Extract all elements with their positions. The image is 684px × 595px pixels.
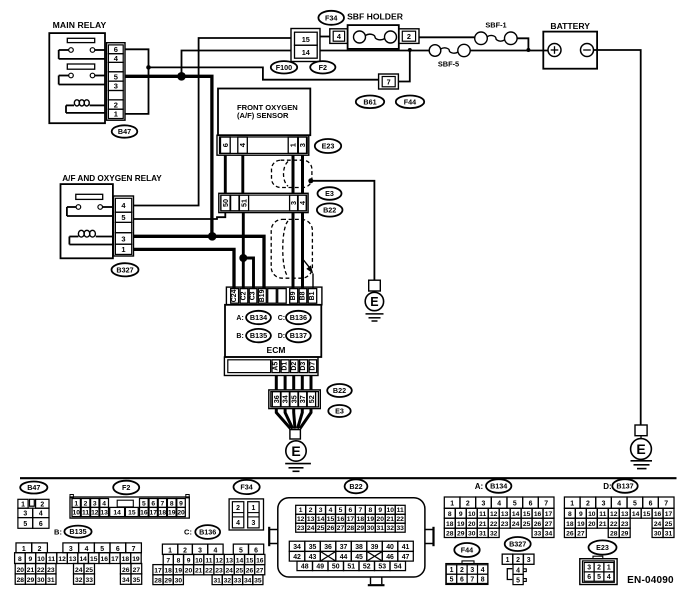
separator line	[20, 477, 677, 479]
svg-text:21: 21	[195, 568, 203, 575]
svg-text:8: 8	[177, 557, 181, 564]
svg-text:12: 12	[215, 557, 223, 564]
ECM bottom pin row	[224, 357, 318, 376]
svg-text:34: 34	[293, 544, 301, 551]
svg-text:4: 4	[298, 201, 307, 205]
connector B327 callout bottom	[505, 537, 531, 551]
svg-text:4: 4	[213, 547, 217, 554]
connector B137 pinout grid	[564, 497, 674, 538]
svg-text:2: 2	[40, 501, 44, 508]
svg-text:20: 20	[177, 510, 185, 517]
svg-text:B1: B1	[309, 291, 316, 300]
svg-text:B135: B135	[69, 527, 86, 536]
svg-text:7: 7	[387, 77, 391, 86]
svg-text:25: 25	[86, 567, 94, 574]
svg-text:F34: F34	[240, 483, 252, 492]
svg-text:44: 44	[340, 554, 348, 561]
svg-text:6: 6	[349, 507, 353, 514]
connector F2 callout bottom	[113, 481, 139, 495]
connector B22 callout bottom	[345, 479, 368, 493]
svg-text:5: 5	[513, 501, 517, 508]
svg-text:22: 22	[396, 516, 404, 523]
svg-text:31: 31	[377, 525, 385, 532]
svg-text:42: 42	[293, 554, 301, 561]
ECM label D: B137	[278, 333, 285, 340]
svg-text:C2: C2	[240, 291, 247, 300]
main relay box	[49, 33, 105, 123]
svg-text:2: 2	[516, 557, 520, 564]
connector B135 pinout grid	[15, 543, 142, 584]
svg-text:1: 1	[21, 501, 25, 508]
svg-text:10: 10	[386, 507, 394, 514]
svg-text:7: 7	[166, 557, 170, 564]
svg-text:E: E	[370, 295, 378, 309]
battery plus terminal	[548, 44, 561, 57]
svg-text:9: 9	[187, 557, 191, 564]
svg-text:10: 10	[195, 557, 203, 564]
connector B61 callout	[356, 96, 384, 109]
svg-text:15: 15	[643, 511, 651, 518]
svg-text:16: 16	[140, 510, 148, 517]
svg-text:34: 34	[281, 395, 290, 403]
svg-text:3: 3	[587, 565, 591, 572]
svg-text:1: 1	[114, 110, 118, 119]
svg-text:17: 17	[545, 511, 553, 518]
ground E battery symbol	[631, 425, 653, 469]
svg-text:B135: B135	[250, 331, 267, 340]
svg-text:6: 6	[460, 577, 464, 584]
svg-text:6: 6	[116, 546, 120, 553]
svg-text:35: 35	[309, 544, 317, 551]
svg-text:BATTERY: BATTERY	[550, 21, 590, 31]
svg-text:24: 24	[225, 568, 233, 575]
svg-text:2: 2	[38, 546, 42, 553]
svg-text:17: 17	[347, 516, 355, 523]
svg-text:2: 2	[84, 500, 88, 507]
svg-text:C24: C24	[231, 289, 238, 302]
svg-text:20: 20	[377, 516, 385, 523]
svg-text:45: 45	[355, 554, 363, 561]
svg-text:25: 25	[317, 525, 325, 532]
svg-text:23: 23	[621, 521, 629, 528]
svg-text:16: 16	[534, 511, 542, 518]
connector F100 callout	[271, 61, 297, 73]
svg-text:8: 8	[170, 500, 174, 507]
A/F relay coil	[69, 230, 113, 244]
svg-text:3: 3	[470, 567, 474, 574]
svg-text:7: 7	[132, 546, 136, 553]
connector E23 callout bottom	[589, 540, 617, 554]
wire pin3 to ECM B9	[292, 213, 295, 289]
svg-text:6: 6	[587, 574, 591, 581]
svg-text:A:: A:	[475, 482, 483, 491]
svg-text:13: 13	[226, 557, 234, 564]
svg-text:B22: B22	[323, 206, 336, 215]
SBF holder pin 4	[330, 29, 348, 44]
svg-text:4: 4	[481, 567, 485, 574]
svg-text:35: 35	[133, 577, 141, 584]
svg-text:27: 27	[256, 568, 264, 575]
svg-text:SBF-5: SBF-5	[438, 59, 459, 68]
svg-text:34: 34	[122, 577, 130, 584]
svg-text:6: 6	[151, 500, 155, 507]
svg-text:53: 53	[378, 564, 386, 571]
svg-text:16: 16	[654, 511, 662, 518]
connector B327 pinout grid	[502, 554, 534, 585]
svg-text:8: 8	[448, 511, 452, 518]
svg-text:B22: B22	[333, 386, 346, 395]
wire pin4 to ECM B8	[301, 213, 304, 289]
svg-text:12: 12	[297, 516, 305, 523]
svg-text:B:: B:	[54, 528, 62, 537]
svg-text:15: 15	[90, 556, 98, 563]
svg-text:B19: B19	[259, 289, 266, 302]
svg-text:D3: D3	[300, 362, 307, 371]
svg-text:2: 2	[586, 501, 590, 508]
svg-text:2: 2	[114, 100, 118, 109]
svg-text:E: E	[636, 441, 645, 457]
svg-text:8: 8	[481, 577, 485, 584]
svg-text:31: 31	[213, 578, 221, 585]
svg-text:21: 21	[479, 521, 487, 528]
svg-text:6: 6	[649, 501, 653, 508]
svg-text:A/F AND OXYGEN RELAY: A/F AND OXYGEN RELAY	[62, 174, 162, 183]
svg-text:D:: D:	[603, 482, 611, 491]
svg-text:35: 35	[289, 395, 298, 403]
connector B47 callout	[112, 125, 138, 137]
svg-text:3: 3	[23, 511, 27, 518]
fuse SBF-5	[429, 44, 470, 68]
svg-text:ECM: ECM	[267, 345, 286, 355]
wire node A right and down thick	[182, 76, 212, 236]
svg-text:1: 1	[607, 565, 611, 572]
svg-text:29: 29	[621, 531, 629, 538]
connector row E3-B22 pins 50 51 3 4	[219, 193, 308, 212]
svg-text:5: 5	[121, 213, 125, 222]
svg-text:19: 19	[132, 556, 140, 563]
svg-text:E: E	[291, 443, 300, 459]
connector B134 pinout grid	[444, 497, 554, 538]
svg-text:26: 26	[122, 567, 130, 574]
main relay contact bar 1	[67, 38, 94, 42]
connector F44 pinout grid	[446, 561, 488, 584]
svg-text:17: 17	[149, 510, 157, 517]
svg-text:3: 3	[198, 547, 202, 554]
svg-text:36: 36	[272, 395, 281, 403]
svg-text:B9: B9	[290, 291, 297, 300]
svg-text:15: 15	[246, 557, 254, 564]
svg-text:25: 25	[665, 521, 673, 528]
svg-text:20: 20	[588, 521, 596, 528]
svg-text:5: 5	[23, 521, 27, 528]
ground funnel wires	[276, 409, 311, 429]
wire sensor pin4 to pin51	[241, 155, 244, 193]
connector F34 callout bottom	[234, 480, 260, 494]
svg-text:38: 38	[355, 544, 363, 551]
svg-text:33: 33	[86, 577, 94, 584]
main relay connector B47 pin strip	[107, 43, 126, 121]
svg-text:B137: B137	[290, 331, 307, 340]
ground E left symbol	[285, 430, 311, 472]
svg-text:25: 25	[523, 521, 531, 528]
wire pin7 up to SBF-5 line	[398, 50, 409, 82]
svg-text:14: 14	[79, 556, 87, 563]
front oxygen sensor label	[237, 103, 298, 120]
main relay coil	[66, 100, 105, 113]
svg-text:15: 15	[327, 516, 335, 523]
svg-text:51: 51	[347, 564, 355, 571]
connector B22 callout	[317, 203, 343, 216]
svg-text:5: 5	[114, 72, 118, 81]
svg-text:18: 18	[164, 568, 172, 575]
svg-text:6: 6	[529, 501, 533, 508]
svg-text:11: 11	[599, 511, 606, 518]
svg-text:30: 30	[468, 531, 476, 538]
svg-text:33: 33	[396, 525, 404, 532]
shield upper dashed	[272, 160, 312, 187]
svg-text:37: 37	[340, 544, 348, 551]
svg-text:31: 31	[665, 531, 673, 538]
connector F34 pinout grid	[229, 499, 263, 530]
svg-text:7: 7	[470, 577, 474, 584]
svg-text:4: 4	[236, 520, 240, 527]
svg-text:10: 10	[37, 556, 45, 563]
svg-text:34: 34	[244, 578, 252, 585]
svg-text:11: 11	[397, 507, 404, 514]
svg-text:28: 28	[154, 578, 162, 585]
svg-text:28: 28	[610, 531, 618, 538]
svg-text:29: 29	[357, 525, 365, 532]
connector F2 callout	[310, 61, 335, 73]
svg-text:4: 4	[102, 500, 106, 507]
svg-text:18: 18	[357, 516, 365, 523]
svg-text:16: 16	[101, 556, 109, 563]
svg-text:C3: C3	[250, 291, 257, 300]
A/F relay connector B327 pin strip	[114, 196, 134, 256]
svg-text:33: 33	[534, 531, 542, 538]
svg-text:25: 25	[236, 568, 244, 575]
svg-text:13: 13	[307, 516, 315, 523]
svg-text:1: 1	[450, 567, 454, 574]
connector F44 callout	[396, 96, 424, 109]
svg-text:19: 19	[577, 521, 585, 528]
svg-text:21: 21	[599, 521, 607, 528]
svg-text:B134: B134	[250, 313, 267, 322]
svg-text:8: 8	[368, 507, 372, 514]
svg-text:52: 52	[363, 564, 371, 571]
connector B22 callout lower	[327, 384, 352, 397]
connector E3 callout	[318, 187, 342, 200]
svg-text:33: 33	[234, 578, 242, 585]
svg-text:5: 5	[597, 574, 601, 581]
svg-text:1: 1	[288, 143, 297, 147]
svg-text:11: 11	[48, 556, 55, 563]
svg-text:19: 19	[367, 516, 375, 523]
wire F2 pin14 to battery plus	[320, 50, 429, 52]
svg-text:22: 22	[490, 521, 498, 528]
svg-text:10: 10	[588, 511, 596, 518]
svg-text:5: 5	[339, 507, 343, 514]
fuse SBF-1	[475, 20, 517, 44]
ECM label B: B135	[236, 333, 243, 340]
svg-text:20: 20	[185, 568, 193, 575]
svg-text:B327: B327	[509, 540, 526, 549]
svg-text:21: 21	[27, 567, 35, 574]
svg-text:14: 14	[317, 516, 325, 523]
svg-text:3: 3	[482, 501, 486, 508]
node junction on pin6-pin1 wire	[146, 65, 151, 70]
svg-text:8: 8	[568, 511, 572, 518]
connector pin 7 (B61 to F44)	[379, 74, 399, 89]
svg-text:24: 24	[307, 525, 315, 532]
svg-text:4: 4	[85, 546, 89, 553]
svg-text:10: 10	[468, 511, 476, 518]
svg-text:30: 30	[367, 525, 375, 532]
svg-text:11: 11	[479, 511, 486, 518]
svg-text:B:: B:	[236, 333, 243, 340]
main relay switch 1	[59, 48, 105, 59]
svg-text:32: 32	[386, 525, 394, 532]
svg-text:36: 36	[324, 544, 332, 551]
svg-text:6: 6	[254, 547, 258, 554]
svg-text:B47: B47	[118, 127, 131, 136]
connector B327 callout	[112, 263, 139, 276]
svg-text:43: 43	[309, 554, 317, 561]
svg-text:50: 50	[332, 564, 340, 571]
svg-text:15: 15	[302, 35, 310, 44]
svg-text:26: 26	[246, 568, 254, 575]
svg-text:2: 2	[236, 505, 240, 512]
connector B22 pinout housing	[269, 498, 433, 586]
svg-text:9: 9	[459, 511, 463, 518]
svg-text:15: 15	[523, 511, 531, 518]
svg-text:32: 32	[224, 578, 232, 585]
node junction sensor signal split	[239, 254, 247, 262]
svg-text:27: 27	[545, 521, 553, 528]
svg-text:4: 4	[607, 574, 611, 581]
ECM top pin row	[226, 287, 322, 305]
svg-text:19: 19	[168, 510, 176, 517]
svg-text:22: 22	[610, 521, 618, 528]
svg-text:F44: F44	[461, 546, 473, 555]
svg-text:B327: B327	[116, 265, 133, 274]
svg-text:SBF HOLDER: SBF HOLDER	[347, 11, 404, 21]
svg-text:MAIN RELAY: MAIN RELAY	[53, 20, 107, 30]
sensor connector E23 pin row	[217, 135, 309, 155]
svg-text:13: 13	[69, 556, 77, 563]
svg-text:23: 23	[297, 525, 305, 532]
svg-text:E23: E23	[322, 142, 335, 151]
connector B134 callout	[486, 479, 511, 493]
svg-text:D2: D2	[291, 362, 298, 371]
connector E23 pinout grid	[580, 556, 617, 584]
svg-text:35: 35	[254, 578, 262, 585]
node junction battery line	[526, 48, 530, 52]
svg-text:18: 18	[446, 521, 454, 528]
svg-text:E3: E3	[335, 407, 344, 416]
svg-text:1: 1	[121, 245, 125, 254]
ground connector row 36 34 35 37 52	[269, 390, 321, 409]
svg-text:F2: F2	[122, 483, 130, 492]
battery box	[543, 32, 597, 69]
wire sensor pin1 signal	[292, 155, 295, 193]
svg-text:F34: F34	[325, 13, 337, 22]
connector E23 callout	[315, 139, 341, 153]
svg-text:26: 26	[566, 531, 574, 538]
svg-text:30: 30	[37, 577, 45, 584]
SBF main fuse	[348, 25, 399, 49]
wire A/F relay pin3 thick to ECM B19	[134, 236, 265, 288]
A/F relay contact bar	[76, 194, 103, 199]
connector F2 pinout grid	[70, 495, 189, 519]
svg-text:29: 29	[457, 531, 465, 538]
svg-text:14: 14	[632, 511, 640, 518]
wire sensor pin6 to pin50	[224, 155, 227, 193]
wire sensor pin3 signal	[301, 155, 304, 193]
ECM label C: B136	[278, 315, 285, 322]
node big junction A	[177, 72, 186, 81]
svg-text:7: 7	[161, 500, 165, 507]
svg-text:15: 15	[128, 510, 136, 517]
wire main relay pin5 thick to node	[125, 75, 182, 78]
svg-text:7: 7	[664, 501, 668, 508]
svg-text:50: 50	[221, 199, 230, 207]
svg-text:3: 3	[93, 500, 97, 507]
svg-text:23: 23	[47, 567, 55, 574]
svg-text:D1: D1	[282, 362, 289, 371]
svg-text:48: 48	[301, 564, 309, 571]
connector B136 pinout grid	[153, 544, 265, 585]
svg-text:26: 26	[327, 525, 335, 532]
wire SBF-5 to battery	[470, 50, 548, 52]
svg-text:1: 1	[168, 547, 172, 554]
svg-text:40: 40	[386, 544, 394, 551]
shield drain arrow to ECM B1	[304, 260, 314, 289]
svg-text:6: 6	[221, 143, 230, 147]
svg-text:47: 47	[402, 554, 410, 561]
svg-text:32: 32	[75, 577, 83, 584]
battery minus terminal	[581, 44, 594, 57]
ECM box	[225, 305, 321, 357]
svg-text:B137: B137	[616, 482, 633, 491]
connector B47 pinout grid	[18, 499, 49, 528]
wire battery minus to ground E	[594, 50, 641, 425]
svg-text:29: 29	[164, 578, 172, 585]
svg-text:20: 20	[17, 567, 25, 574]
svg-text:3: 3	[69, 546, 73, 553]
svg-text:13: 13	[100, 510, 108, 517]
svg-text:6: 6	[114, 45, 118, 54]
svg-text:18: 18	[122, 556, 130, 563]
svg-text:B136: B136	[199, 528, 216, 537]
svg-text:18: 18	[159, 510, 167, 517]
svg-text:14: 14	[236, 557, 244, 564]
svg-text:3: 3	[289, 201, 298, 205]
ground E mid symbol	[365, 280, 383, 321]
svg-text:3: 3	[527, 557, 531, 564]
svg-text:C:: C:	[278, 315, 285, 322]
wire main relay pin6 to pin1 loop	[125, 49, 149, 114]
connector B137 callout	[612, 479, 637, 493]
svg-text:B136: B136	[290, 313, 307, 322]
svg-text:4: 4	[617, 501, 621, 508]
A/F relay box	[61, 184, 113, 258]
svg-text:2: 2	[309, 507, 313, 514]
svg-text:9: 9	[179, 500, 183, 507]
svg-text:1: 1	[506, 557, 510, 564]
svg-text:B22: B22	[349, 482, 362, 491]
connector B22 pinout bottom block	[289, 541, 413, 570]
